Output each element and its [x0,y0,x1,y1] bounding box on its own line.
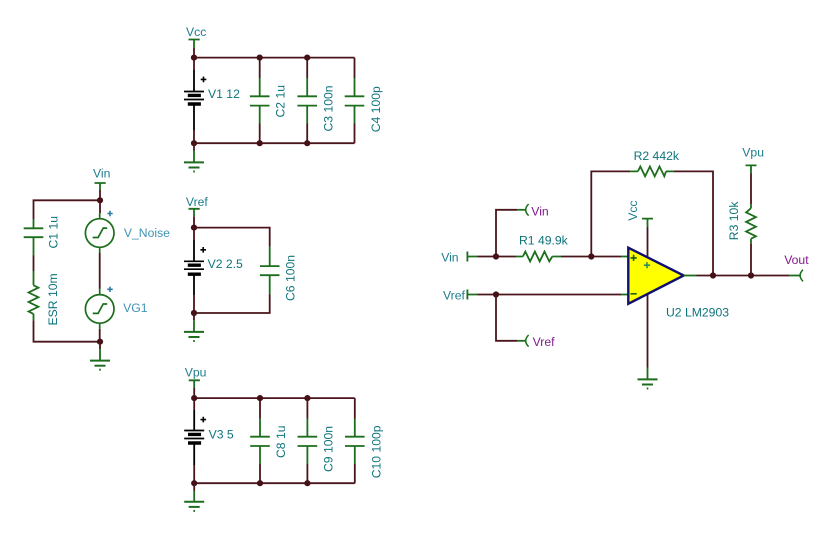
wire C4 leads [354,58,356,144]
svg-text:R1 49.9k: R1 49.9k [519,234,569,248]
svg-text:C6 100n: C6 100n [283,255,297,301]
wire top to left branch [34,200,101,219]
battery V3 plus mark [201,417,207,423]
svg-text:R3 10k: R3 10k [727,201,741,241]
svg-text:Vref: Vref [533,335,556,349]
wire C8 leads [259,398,261,483]
svg-text:Vin: Vin [93,166,110,180]
wire VG1 to bottom junction [99,329,101,342]
resistor R2 [630,167,673,177]
svg-text:R2 442k: R2 442k [634,149,680,163]
ground A [184,151,204,172]
svg-text:V2 2.5: V2 2.5 [208,257,243,271]
op-amp plus input mark [631,255,637,261]
resistor R3 [746,204,756,243]
wire Vcc jumper to top rail [193,48,195,58]
svg-text:V_Noise: V_Noise [124,226,170,240]
jumper Vcc T-bar [189,40,200,49]
junction A6 [304,140,310,146]
wire output [697,275,790,277]
svg-text:V1 12: V1 12 [208,87,240,101]
wire Vin node to V_Noise [99,200,101,213]
battery V2 [184,261,204,274]
junction E2 [588,253,594,259]
ground D [184,491,204,511]
op-amp minus input mark [631,293,637,295]
svg-text:C2 1u: C2 1u [274,85,288,118]
capacitor C4 [345,78,365,124]
wire C1 to ESR [33,256,35,272]
svg-text:C3 100n: C3 100n [322,85,336,131]
svg-text:C8 1u: C8 1u [274,425,288,458]
svg-text:Vpu: Vpu [185,366,207,380]
port Vin symbol [467,252,477,262]
op-amp inner plus mark [644,262,650,268]
source VG1 plus mark [107,287,112,292]
svg-text:Vcc: Vcc [626,200,640,220]
wire bottom rail [194,142,355,144]
junction A4 [191,140,197,146]
svg-text:Vout: Vout [784,253,809,267]
junction A3 [304,55,310,61]
wire top rail [194,57,355,59]
battery V3 leads [193,398,195,483]
svg-text:V3 5: V3 5 [209,427,234,441]
port Vout arc [800,270,803,282]
output lead green [789,275,800,277]
svg-text:Vref: Vref [186,195,209,209]
wire Vpu jumper down [193,388,195,398]
svg-text:C9 100n: C9 100n [322,426,336,472]
wire Vin port to junction [478,256,497,258]
op-amp plus input stub [621,256,628,258]
callout Vref lead [517,340,525,342]
wire V_Noise to VG1 [99,253,101,289]
junction A2 [257,55,263,61]
svg-text:C10 100p: C10 100p [370,425,384,478]
junction D3 [304,395,310,401]
source VG1 [85,289,114,329]
junction D5 [257,480,263,486]
jumper Vpu T-bar op-amp [746,165,757,173]
battery V1 leads [193,58,195,144]
op-amp U2 triangle [628,248,683,304]
wire R1 to junction2 [561,256,591,258]
op-amp minus input stub [621,294,628,296]
wire C10 leads [354,398,356,483]
ground C [184,320,204,341]
capacitor C8 [250,419,270,465]
capacitor C2 [250,78,270,124]
junction E4 [710,272,716,278]
wire to ground B [99,342,101,349]
wire junction2 to op-amp plus input [591,256,621,258]
junction D4 [191,480,197,486]
wire Vin jumper down [99,190,101,200]
junction E3 [493,291,499,297]
junction E1 [493,253,499,259]
wire C2 leads [259,58,261,144]
battery V1 [184,92,204,105]
svg-text:Vpu: Vpu [742,146,764,160]
svg-text:ESR 10m: ESR 10m [46,273,60,325]
junction C1 [191,225,197,231]
callout Vref arc [526,335,529,347]
resistor R3 leads wire [750,174,752,276]
junction D2 [257,395,263,401]
battery V3 [184,431,204,444]
wire battery V1 to ground [193,143,195,150]
callout Vin lead [517,209,525,211]
svg-text:U2 LM2903: U2 LM2903 [666,306,729,320]
wire ESR to bottom [34,320,101,341]
battery V2 plus mark [200,247,206,253]
wire C9 leads [306,398,308,483]
junction B2 [97,339,103,345]
wire top rail D [194,397,355,399]
jumper Vcc op-amp T-bar [642,219,653,227]
junction D1 [191,395,197,401]
wire C6 bottom [194,295,270,314]
wire to ground C [193,313,195,320]
svg-text:Vin: Vin [531,204,548,218]
wire op-amp bottom to ground [647,292,649,368]
svg-text:VG1: VG1 [123,301,148,315]
wire R2 to output junction [674,171,713,275]
svg-text:C4 100p: C4 100p [369,86,383,132]
wire junction to R1 [496,256,516,258]
jumper Vin T-bar [95,183,106,190]
op-amp output stub [684,275,697,277]
wire junction2 up to R2 loop [591,171,630,256]
jumper Vpu T-bar [189,380,200,388]
resistor ESR [29,271,39,320]
junction E5 [748,272,754,278]
port Vref symbol [467,290,477,300]
wire junction down to Vref callout [496,295,517,341]
capacitor C6 [260,247,280,295]
jumper Vref T-bar [189,209,200,217]
capacitor C10 [345,419,365,465]
junction D6 [304,480,310,486]
wire Vcc T-bar to op-amp top [647,227,649,259]
source V_Noise plus mark [107,211,112,216]
junction A5 [257,140,263,146]
wire junction up to Vin callout [496,210,517,257]
svg-text:Vref: Vref [443,288,466,302]
capacitor C9 [298,419,318,465]
resistor R1 [516,252,561,262]
junction C2 [191,310,197,316]
junction A1 [191,55,197,61]
svg-text:Vcc: Vcc [186,25,206,39]
junction B1 [97,197,103,203]
capacitor C1 [24,219,44,256]
wire top rail C [194,228,270,247]
ground E [638,368,658,389]
ground B [90,349,110,370]
battery V1 plus mark [201,77,207,83]
wire to ground D [193,483,195,490]
wire Vref jumper down [193,216,195,227]
wire C3 leads [306,58,308,144]
battery V2 leads [193,228,195,313]
capacitor C3 [297,78,317,124]
wire Vref port to junction [478,294,497,296]
callout Vin arc [526,204,529,216]
wire bottom rail D [194,482,355,484]
wire Vref junction to op-amp minus input [496,294,621,296]
svg-text:Vin: Vin [441,251,458,265]
source V_Noise [85,213,114,253]
svg-text:C1 1u: C1 1u [46,216,60,249]
